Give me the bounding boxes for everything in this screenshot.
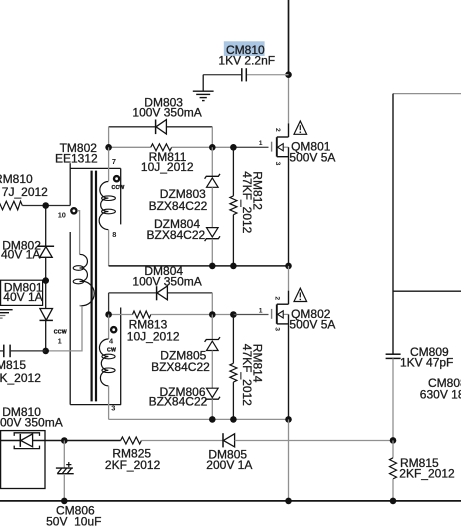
diode DM802 [1,206,54,281]
node junction DZM805 top [209,311,216,318]
svg-text:4: 4 [109,336,114,345]
node junction QM801 source [285,263,292,270]
wire source rail QM801 [109,265,289,267]
wire pin 4 [108,315,110,340]
svg-text:47KF_2012: 47KF_2012 [240,171,254,233]
wire right box vertical [392,94,394,354]
svg-text:50V 10uF: 50V 10uF [46,515,101,527]
svg-text:BZX84C22: BZX84C22 [147,228,206,242]
wire pin 8 down to source rail [108,230,110,266]
wire QM802 source to bottom rail [288,419,290,501]
svg-text:47KF_2012: 47KF_2012 [240,344,254,406]
wire pin 3 [108,386,110,420]
node junction QM802 rail [285,498,292,505]
node junction CM810/drain [285,71,292,78]
node junction DM801/CM815 [42,348,49,355]
node junction RM814 top [230,311,237,318]
capacitor CM806 [46,441,101,527]
pin 2 label QM802 [274,296,281,300]
wire pin 1 [46,306,82,351]
resistor RM811 [109,144,269,174]
warning triangle QM801 [294,121,307,134]
node junction RM812 top [230,144,237,151]
svg-text:1: 1 [259,140,263,147]
svg-text:3: 3 [274,327,281,331]
svg-text:630V 18n: 630V 18n [420,387,461,401]
winding secondary lower 4-3 [99,339,115,386]
svg-text:CCW: CCW [54,329,67,335]
svg-text:7J_2012: 7J_2012 [2,185,48,199]
svg-text:40V 1A: 40V 1A [1,247,40,261]
pin 2 label QM801 [274,128,281,132]
wire pin 7 [108,147,110,181]
svg-text:00V 350mA: 00V 350mA [0,415,63,429]
diode DM801 label box [1,280,43,305]
svg-text:EE1312: EE1312 [55,151,98,165]
svg-text:3: 3 [111,403,115,412]
wire pin 10 to winding [77,211,79,254]
svg-text:CCW: CCW [112,185,125,191]
transformer TM802 core [92,171,96,402]
node junction DM802/DM801 [42,277,49,284]
capacitor CM810 [203,41,288,81]
pin 4 polarity dot [111,327,116,332]
node junction QM802 source [285,416,292,423]
svg-text:7: 7 [112,157,116,166]
svg-text:2KF_2012: 2KF_2012 [399,466,455,480]
node junction RM812 bottom [230,263,237,270]
diode DM810 [0,405,64,449]
label QM802 [289,307,335,332]
zener DZM803 [149,147,220,227]
pin 10 polarity dot [71,208,76,213]
svg-text:10J_2012: 10J_2012 [141,160,194,174]
svg-text:2KF_2012: 2KF_2012 [105,458,161,472]
pin 3 label QM802 [274,327,281,331]
capacitor CM815 [0,345,46,386]
svg-text:BZX84C22: BZX84C22 [149,394,208,408]
svg-text:CW: CW [107,347,116,353]
svg-text:1: 1 [259,307,263,314]
wire source rail QM802 [109,418,289,420]
label QM801 [289,140,335,165]
diode DM801 [40,281,53,351]
svg-text:1KV 2.2nF: 1KV 2.2nF [218,53,275,67]
node junction RM815 bottom [390,498,397,505]
zener DZM805 [151,315,220,389]
label CM808 [420,376,461,402]
svg-text:10: 10 [58,211,66,220]
node junction pin7/RM811 [105,144,112,151]
zener DZM804 [147,217,221,266]
box bottom-left connector [1,431,45,489]
resistor RM814 [230,315,237,420]
transformer TM802 labels [55,141,98,165]
label RM814 rotated [240,344,265,406]
svg-text:BZX84C22: BZX84C22 [149,199,208,213]
svg-text:3: 3 [274,162,281,166]
svg-text:40V 1A: 40V 1A [3,290,42,304]
node junction DM810/CM806 [61,437,68,444]
zener DZM806 [149,385,220,420]
svg-text:RM810: RM810 [0,172,33,186]
node junction pin4/RM813 [105,311,112,318]
svg-text:200V 1A: 200V 1A [206,458,252,472]
svg-text:K_2012: K_2012 [0,371,41,385]
svg-text:1KV 47pF: 1KV 47pF [400,356,453,370]
diode DM805 [206,433,393,472]
svg-text:8: 8 [112,230,116,239]
node junction RM814 bottom [230,416,237,423]
transformer TM802 bobbin box [70,163,121,404]
svg-text:500V 5A: 500V 5A [289,318,335,332]
svg-text:2: 2 [274,296,281,300]
node junction RM810/DM802 [42,202,49,209]
svg-text:500V 5A: 500V 5A [289,150,335,164]
MOSFET QM801 [272,123,289,266]
ground CM810 [193,75,214,101]
label RM812 rotated [240,171,265,233]
winding secondary upper 7-8 [99,182,115,230]
capacitor CM809 [386,345,454,440]
wire right box middle [393,290,461,292]
warning triangle QM802 [294,288,307,301]
node junction DZM803 top [209,144,216,151]
svg-text:1: 1 [58,337,62,346]
diode DM804 [109,264,213,315]
node junction CM806 bottom [61,498,68,505]
resistor RM810 [0,172,70,210]
svg-text:10J_2012: 10J_2012 [127,329,180,343]
resistor RM825 [64,437,223,472]
node junction DZM806 bottom [209,416,216,423]
wire right box top [393,93,461,95]
resistor RM812 [230,147,237,266]
wire drain top vertical to QM801 [288,0,290,123]
node junction CM809/RM815 [390,437,397,444]
pin 3 label QM801 [274,162,281,166]
resistor RM813 [109,311,234,343]
winding primary 10-1 [73,254,94,305]
MOSFET QM802 [233,266,288,420]
ground left [0,310,13,318]
svg-text:2: 2 [274,128,281,132]
svg-text:BZX84C22: BZX84C22 [151,360,210,374]
wire bottom rail [0,500,461,502]
node junction DZM804 bottom [209,263,216,270]
resistor RM815 [390,440,456,501]
diode DM803 [109,96,213,148]
pin 7 polarity dot [114,176,119,181]
svg-text:100V 350mA: 100V 350mA [132,106,201,120]
svg-text:M815: M815 [0,358,26,372]
